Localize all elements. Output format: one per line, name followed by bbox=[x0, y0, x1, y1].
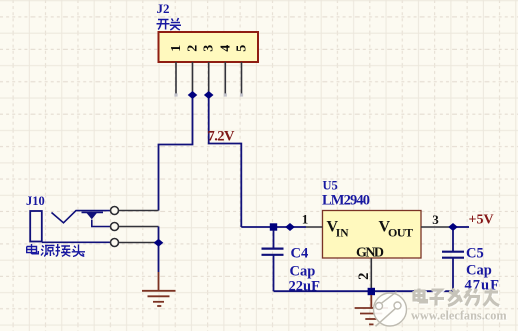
C5 designator label bbox=[466, 246, 484, 262]
ground wire from J10 pins 2,3 bbox=[158, 227, 160, 273]
svg-text:U5: U5 bbox=[323, 179, 338, 193]
svg-text:4: 4 bbox=[218, 45, 233, 52]
C4 value label 22uF bbox=[289, 279, 321, 295]
connector J10 comment label 电源接头 (power connector) bbox=[27, 244, 85, 257]
J10 pin 3 lead bbox=[119, 242, 159, 244]
connector J2 designator label bbox=[157, 1, 170, 16]
ground rail wire C4 to C5 bbox=[274, 290, 454, 292]
U5 VIN port name bbox=[327, 219, 350, 240]
svg-text:+5V: +5V bbox=[469, 213, 494, 228]
ground symbol (center, at U5 pin 2) bbox=[355, 295, 388, 324]
svg-text:LM2940: LM2940 bbox=[322, 193, 370, 209]
U5 pin 1 number bbox=[302, 212, 309, 227]
J2 pin 5 bbox=[240, 62, 243, 97]
svg-text:2: 2 bbox=[186, 45, 201, 52]
junction at J2 pin 2 bbox=[188, 91, 198, 99]
svg-text:3: 3 bbox=[202, 45, 217, 52]
watermark logo circle bbox=[374, 292, 407, 327]
net label 7.2V bbox=[208, 129, 236, 145]
svg-text:1: 1 bbox=[169, 45, 184, 52]
svg-text:2: 2 bbox=[356, 273, 372, 280]
J10 center pin contact bbox=[82, 212, 111, 226]
J2 pin number 4 bbox=[218, 45, 233, 52]
svg-text:J10: J10 bbox=[26, 194, 45, 208]
J2 pin number 5 bbox=[235, 45, 250, 52]
svg-text:IN: IN bbox=[336, 228, 349, 240]
U5 part label LM2940 bbox=[322, 193, 370, 209]
svg-text:OUT: OUT bbox=[388, 226, 413, 240]
C4 designator label bbox=[291, 246, 309, 262]
watermark text 电子发烧友 bbox=[414, 289, 500, 307]
U5 pin 3 number bbox=[432, 212, 439, 227]
J2 pin 4 bbox=[224, 62, 227, 97]
svg-text:C5: C5 bbox=[466, 246, 484, 262]
U5 pin 3 lead bbox=[421, 226, 453, 228]
capacitor C5 bbox=[442, 230, 464, 291]
svg-text:Cap: Cap bbox=[290, 264, 316, 280]
junction at J10 pin 3 bbox=[154, 239, 164, 247]
wire from J2 pin 2 down-left to J10 tip contact bbox=[159, 95, 193, 211]
U5 GND port name bbox=[356, 246, 384, 261]
svg-text:GND: GND bbox=[356, 246, 384, 261]
U5 pin 1 lead bbox=[306, 226, 323, 228]
U5 VOUT port name bbox=[379, 219, 414, 240]
junction (square) C4 tap bbox=[270, 223, 277, 230]
svg-text:7.2V: 7.2V bbox=[208, 129, 236, 145]
watermark text www.elecfans.com bbox=[411, 309, 509, 324]
J2 pin 1 bbox=[174, 62, 177, 97]
junction at C5 / +5V bbox=[448, 223, 458, 231]
J10 sleeve wire to pin 3 bbox=[42, 241, 111, 243]
connector J2 comment label 开关 (switch) bbox=[157, 18, 182, 30]
capacitor C4 bbox=[262, 230, 284, 291]
C5 type label Cap bbox=[466, 263, 492, 279]
J2 pin number 1 bbox=[169, 45, 184, 52]
power port +5V bbox=[469, 213, 494, 228]
svg-text:1: 1 bbox=[302, 212, 309, 227]
J10 pin 1 lead bbox=[119, 210, 159, 212]
svg-text:C4: C4 bbox=[291, 246, 309, 262]
connector J10 designator label bbox=[26, 194, 45, 208]
svg-text:Cap: Cap bbox=[466, 263, 492, 279]
+5V output wire stub bbox=[453, 226, 469, 228]
U5 pin 2 number bbox=[356, 273, 372, 280]
junction (square) at U5 pin 2 bbox=[368, 288, 375, 295]
connector J2 body bbox=[159, 32, 259, 62]
J2 pin 2 bbox=[192, 62, 194, 95]
svg-text:www.elecfans.com: www.elecfans.com bbox=[411, 309, 507, 323]
J10 barrel (sleeve) body bbox=[30, 211, 42, 242]
svg-text:3: 3 bbox=[432, 212, 439, 227]
C5 value label 47uF bbox=[465, 278, 500, 294]
J10 tip spring contact bbox=[52, 211, 111, 223]
J10 pin 2 lead bbox=[119, 226, 159, 228]
wire from J2 pin 3 down-right to regulator input (net 7.2V) bbox=[209, 95, 242, 227]
wire 7.2V net to U5 VIN pin bbox=[241, 226, 306, 228]
voltage regulator U5 body bbox=[323, 211, 422, 259]
svg-text:J2: J2 bbox=[157, 1, 170, 16]
U5 designator label bbox=[323, 179, 338, 193]
J10 pin 3 circle bbox=[111, 239, 119, 247]
junction (diamond) on VIN wire bbox=[285, 223, 295, 231]
ground symbol (left) bbox=[142, 272, 176, 306]
U5 pin 2 lead bbox=[370, 258, 372, 291]
J10 pin 1 circle bbox=[111, 207, 119, 215]
C4 type label Cap bbox=[290, 264, 316, 280]
J10 pin 2 circle bbox=[111, 223, 119, 231]
junction at J2 pin 3 bbox=[204, 91, 214, 99]
J2 pin number 3 bbox=[202, 45, 217, 52]
svg-text:5: 5 bbox=[235, 45, 250, 52]
J2 pin 3 bbox=[208, 62, 210, 95]
J2 pin number 2 bbox=[186, 45, 201, 52]
